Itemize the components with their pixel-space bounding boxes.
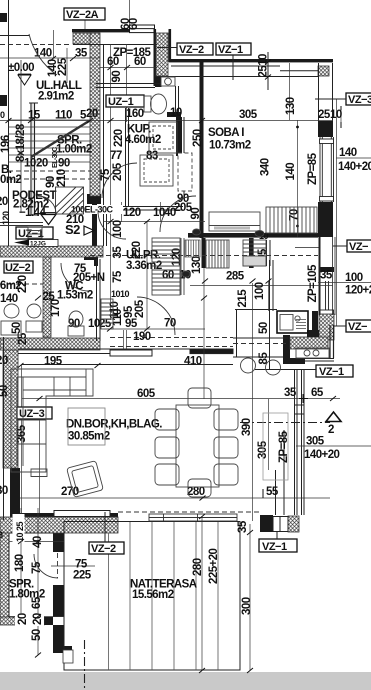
- svg-text:215: 215: [237, 289, 249, 308]
- svg-text:410: 410: [184, 356, 202, 368]
- svg-text:25: 25: [17, 332, 29, 345]
- svg-text:15.56m2: 15.56m2: [132, 589, 174, 601]
- svg-text:60: 60: [162, 270, 174, 282]
- svg-text:10: 10: [330, 109, 342, 121]
- svg-text:75: 75: [112, 270, 124, 283]
- svg-text:35: 35: [320, 270, 333, 282]
- svg-text:390: 390: [241, 418, 253, 436]
- svg-text:190: 190: [133, 331, 151, 343]
- svg-text:50: 50: [31, 629, 43, 641]
- svg-text:95: 95: [125, 318, 138, 330]
- svg-text:2.91m2: 2.91m2: [38, 91, 74, 103]
- svg-text:90: 90: [111, 71, 123, 83]
- svg-text:210: 210: [66, 214, 84, 226]
- svg-text:35: 35: [75, 48, 88, 60]
- svg-text:210: 210: [56, 169, 68, 187]
- svg-text:225: 225: [57, 57, 69, 76]
- svg-text:10.73m2: 10.73m2: [209, 140, 251, 152]
- svg-text:0: 0: [0, 110, 5, 120]
- svg-text:VZ−3: VZ−3: [348, 94, 371, 106]
- svg-text:60: 60: [107, 56, 119, 68]
- svg-text:50: 50: [258, 322, 270, 334]
- svg-text:60: 60: [134, 56, 146, 68]
- svg-text:140+20: 140+20: [304, 449, 340, 461]
- svg-text:220: 220: [113, 129, 125, 147]
- svg-text:35: 35: [284, 387, 297, 399]
- svg-text:ZP=85: ZP=85: [307, 152, 319, 185]
- svg-text:140: 140: [0, 293, 18, 305]
- svg-text:10: 10: [170, 107, 182, 119]
- svg-text:VZ−1: VZ−1: [262, 541, 287, 553]
- svg-text:4.60m2: 4.60m2: [125, 134, 161, 146]
- svg-text:12JG: 12JG: [30, 241, 46, 248]
- svg-text:ZP=105: ZP=105: [307, 264, 319, 302]
- svg-text:280: 280: [192, 558, 204, 576]
- svg-text:VZ−2: VZ−2: [91, 543, 116, 555]
- svg-text:25: 25: [318, 109, 331, 121]
- svg-text:55: 55: [266, 486, 279, 498]
- svg-text:100: 100: [254, 282, 266, 300]
- svg-text:30: 30: [0, 485, 8, 497]
- svg-text:196: 196: [0, 135, 12, 153]
- svg-text:VZ−1: VZ−1: [218, 44, 243, 56]
- svg-text:20: 20: [0, 196, 8, 208]
- svg-text:285: 285: [226, 271, 245, 283]
- svg-text:305: 305: [306, 436, 325, 448]
- svg-text:195: 195: [44, 356, 63, 368]
- svg-text:120+20: 120+20: [345, 285, 371, 297]
- svg-text:205: 205: [134, 299, 146, 318]
- svg-text:20: 20: [0, 355, 8, 367]
- svg-text:220: 220: [131, 241, 143, 259]
- svg-text:65: 65: [31, 596, 43, 609]
- svg-text:30.85m2: 30.85m2: [68, 431, 110, 443]
- svg-text:UZ−2: UZ−2: [5, 262, 31, 274]
- svg-text:VZ−: VZ−: [348, 321, 367, 333]
- svg-text:0m2: 0m2: [0, 174, 22, 186]
- svg-text:120: 120: [1, 211, 11, 225]
- svg-text:50: 50: [0, 385, 10, 397]
- svg-text:365: 365: [16, 424, 28, 443]
- svg-text:205+N: 205+N: [73, 272, 105, 284]
- svg-text:SOBA I: SOBA I: [208, 127, 244, 139]
- svg-text:35: 35: [112, 246, 124, 259]
- svg-text:65: 65: [311, 387, 324, 399]
- svg-text:220: 220: [17, 275, 29, 293]
- svg-text:VZ−2A: VZ−2A: [66, 9, 99, 21]
- svg-text:100: 100: [345, 272, 363, 284]
- svg-text:110: 110: [109, 301, 121, 318]
- svg-text:VZ−: VZ−: [349, 241, 368, 253]
- svg-text:180: 180: [14, 554, 26, 572]
- svg-text:305: 305: [239, 109, 258, 121]
- svg-text:170: 170: [50, 299, 62, 317]
- svg-text:140: 140: [339, 147, 357, 159]
- svg-text:VZ−1: VZ−1: [319, 366, 344, 378]
- svg-text:250: 250: [192, 129, 204, 147]
- svg-text:340: 340: [260, 158, 272, 176]
- svg-text:2: 2: [328, 424, 334, 436]
- svg-text:VZ−2: VZ−2: [179, 44, 204, 56]
- svg-text:77: 77: [110, 150, 122, 162]
- svg-text:10: 10: [120, 289, 130, 299]
- svg-text:75: 75: [31, 561, 43, 574]
- svg-text:130: 130: [285, 97, 297, 115]
- svg-text:140+20: 140+20: [338, 161, 371, 173]
- svg-text:1.00m2: 1.00m2: [56, 144, 92, 156]
- svg-text:20: 20: [32, 613, 44, 625]
- svg-text:85: 85: [258, 352, 270, 365]
- svg-text:UZ−1: UZ−1: [108, 96, 134, 108]
- svg-text:90: 90: [68, 318, 80, 330]
- svg-text:140: 140: [285, 163, 297, 181]
- svg-text:605: 605: [137, 388, 156, 400]
- svg-text:DN.BOR,KH,BLAG.: DN.BOR,KH,BLAG.: [66, 419, 162, 431]
- svg-text:90: 90: [58, 158, 70, 170]
- svg-text:20: 20: [36, 158, 48, 170]
- svg-text:160: 160: [126, 108, 144, 120]
- svg-text:130: 130: [191, 256, 203, 274]
- svg-text:EL-30C: EL-30C: [52, 147, 59, 168]
- svg-text:300: 300: [241, 597, 253, 615]
- svg-text:83: 83: [146, 150, 158, 162]
- svg-text:20: 20: [86, 108, 98, 120]
- svg-text:100: 100: [112, 220, 124, 238]
- svg-text:90: 90: [190, 208, 202, 220]
- svg-text:35: 35: [237, 520, 249, 533]
- svg-text:60: 60: [128, 18, 140, 30]
- svg-text:225+20: 225+20: [208, 548, 220, 584]
- svg-text:120: 120: [123, 207, 141, 219]
- svg-text:20: 20: [17, 613, 29, 625]
- svg-text:75: 75: [100, 168, 112, 181]
